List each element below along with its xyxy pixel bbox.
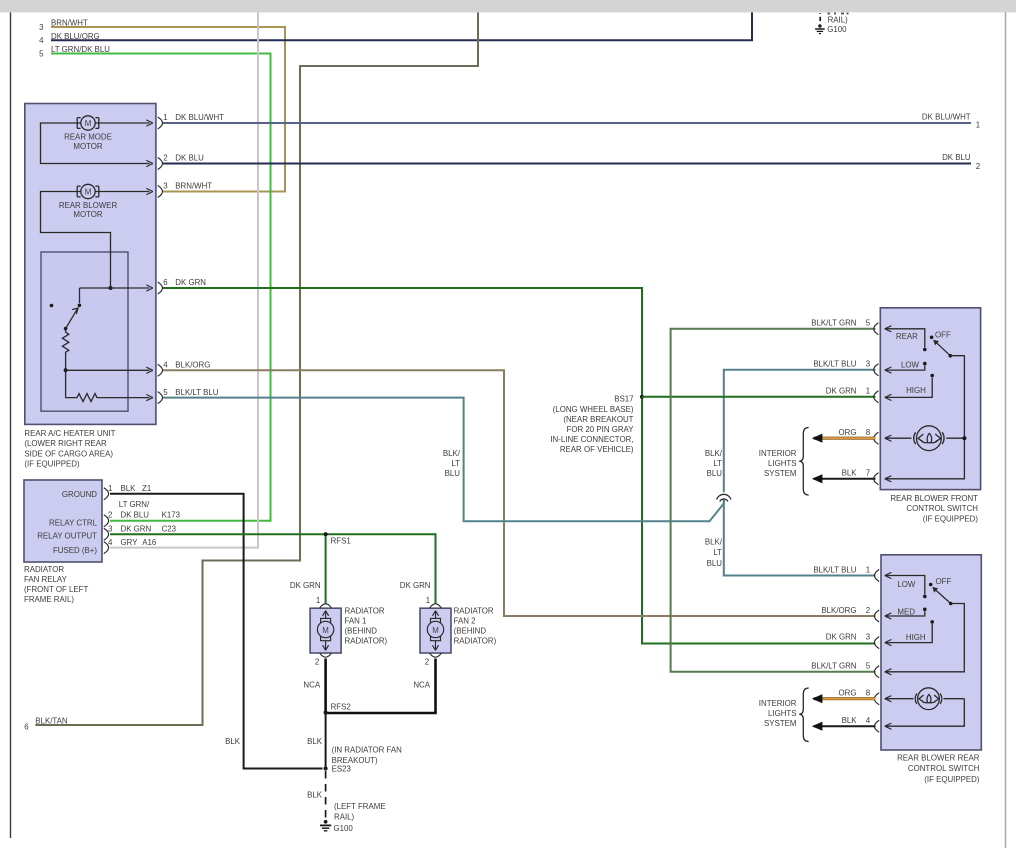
front switch pin 7 terminal arc: [874, 473, 879, 485]
svg-text:4: 4: [108, 538, 113, 547]
svg-text:(LONG WHEEL BASE): (LONG WHEEL BASE): [553, 405, 634, 414]
svg-text:SYSTEM: SYSTEM: [764, 469, 796, 478]
svg-text:DK GRN: DK GRN: [290, 581, 321, 590]
rear blower motor wire loop: [41, 192, 111, 289]
svg-text:3: 3: [108, 524, 113, 533]
svg-text:DK GRN: DK GRN: [121, 524, 152, 533]
svg-text:BLU: BLU: [707, 559, 723, 568]
wire BLK/TAN: [35, 12, 478, 725]
svg-text:1: 1: [866, 387, 870, 396]
svg-text:LT: LT: [713, 459, 722, 468]
svg-text:RFS1: RFS1: [331, 537, 351, 546]
fan 2 pin2 terminal arc: [430, 653, 442, 657]
svg-text:1: 1: [866, 565, 870, 574]
heater pin 2 terminal arc: [158, 158, 163, 170]
front switch pin 1 terminal arc: [874, 391, 879, 403]
heater pin 1 terminal arc: [158, 117, 163, 129]
node junction blower feed: [109, 286, 113, 290]
front switch pin3 arm LOW: [885, 366, 925, 371]
wire BRN/WHT: [51, 27, 285, 192]
svg-text:BLK/: BLK/: [705, 449, 723, 458]
front switch pin5 arm REAR: [885, 329, 925, 348]
svg-text:LOW: LOW: [901, 361, 920, 370]
svg-text:8: 8: [866, 428, 871, 437]
svg-text:REAR BLOWER: REAR BLOWER: [59, 201, 118, 210]
svg-text:K173: K173: [162, 510, 181, 519]
svg-text:DK BLU: DK BLU: [175, 154, 204, 163]
svg-text:LOW: LOW: [897, 580, 916, 589]
svg-text:MED: MED: [897, 607, 915, 616]
rear switch pin1 arm LOW: [885, 576, 925, 595]
svg-text:BLK/LT BLU: BLK/LT BLU: [813, 565, 856, 574]
svg-text:BLK/LT BLU: BLK/LT BLU: [175, 388, 218, 397]
heater pin 5 terminal arc: [158, 392, 163, 404]
svg-text:FRAME RAIL): FRAME RAIL): [24, 595, 74, 604]
svg-text:3: 3: [163, 182, 168, 191]
rear A/C heater unit box: [25, 104, 156, 425]
svg-text:5: 5: [39, 49, 44, 58]
fan 2 pin1 terminal arc: [430, 604, 442, 608]
svg-text:6: 6: [163, 278, 168, 287]
svg-text:SIDE OF CARGO AREA): SIDE OF CARGO AREA): [24, 449, 113, 458]
svg-text:LIGHTS: LIGHTS: [768, 709, 797, 718]
svg-text:HIGH: HIGH: [906, 386, 926, 395]
svg-text:REAR OF VEHICLE): REAR OF VEHICLE): [560, 445, 634, 454]
pin4 internal wire: [66, 369, 150, 371]
front switch pin1 arm HIGH: [885, 378, 932, 398]
svg-text:BLU: BLU: [445, 469, 461, 478]
svg-text:1: 1: [976, 121, 980, 130]
radiator fan 1 motor symbol: [317, 611, 333, 651]
pin6 internal wire: [80, 287, 150, 289]
ground G100 bottom symbol: [324, 820, 328, 824]
radiator fan 2 box: [420, 608, 451, 653]
front switch OFF contact: [930, 336, 934, 340]
svg-text:(BEHIND: (BEHIND: [345, 626, 378, 635]
svg-text:LIGHTS: LIGHTS: [768, 459, 797, 468]
wire fan2 pin2 to RFS2: [327, 659, 436, 714]
rear switch pin 5 terminal arc: [874, 666, 879, 678]
svg-text:CONTROL SWITCH: CONTROL SWITCH: [908, 764, 980, 773]
svg-text:2: 2: [976, 162, 980, 171]
selector lever with arrow: [66, 309, 78, 328]
svg-text:GRY: GRY: [121, 538, 139, 547]
wire BLK Z1 relay pin1 to ES23: [110, 494, 323, 769]
svg-text:REAR BLOWER REAR: REAR BLOWER REAR: [897, 754, 980, 763]
node ES23: [324, 766, 328, 770]
svg-text:BLK: BLK: [225, 737, 241, 746]
svg-text:6: 6: [24, 722, 29, 731]
svg-text:BLK/LT BLU: BLK/LT BLU: [813, 360, 856, 369]
resistor R2 horizontal zigzag: [66, 370, 150, 401]
svg-text:GROUND: GROUND: [62, 490, 97, 499]
node junction pin4: [64, 368, 68, 372]
arrow ORG front: [812, 434, 823, 443]
svg-text:4: 4: [39, 36, 44, 45]
front switch pin 5 terminal arc: [874, 323, 879, 335]
pin4 arrow: [146, 367, 153, 373]
svg-text:FAN RELAY: FAN RELAY: [24, 575, 68, 584]
rear mode motor wire loop: [41, 123, 150, 164]
svg-text:M: M: [85, 119, 92, 128]
svg-text:INTERIOR: INTERIOR: [759, 699, 797, 708]
front switch lever: [936, 343, 950, 356]
heater pin 3 terminal arc: [158, 186, 163, 198]
svg-text:G100: G100: [334, 824, 354, 833]
rear switch lamp to pin4 wire: [885, 699, 965, 727]
svg-text:(IF EQUIPPED): (IF EQUIPPED): [924, 775, 980, 784]
svg-text:DK BLU/WHT: DK BLU/WHT: [922, 113, 971, 122]
svg-text:M: M: [85, 188, 92, 197]
wire BLK dashed to G100 (top, cut off): [819, 17, 821, 21]
svg-text:2: 2: [315, 658, 319, 667]
svg-text:RFS2: RFS2: [331, 703, 351, 712]
rear blower motor M2 symbol: [77, 184, 99, 198]
svg-text:DK BLU/WHT: DK BLU/WHT: [175, 113, 224, 122]
arrow BLK rear: [812, 722, 823, 731]
fan 1 pin1 terminal arc: [320, 604, 332, 608]
svg-text:INTERIOR: INTERIOR: [759, 449, 797, 458]
rear switch common wire: [885, 604, 965, 672]
front switch lamp L1: [885, 437, 912, 439]
top gray toolbar strip: [0, 0, 1016, 12]
rear switch pin 4 terminal arc: [874, 720, 879, 732]
spare contact dot: [50, 304, 54, 308]
wire BLK/LT BLU upper branch to front switch pin3: [724, 370, 876, 493]
rear mode motor M1 symbol: [77, 116, 99, 130]
svg-text:1: 1: [163, 113, 167, 122]
svg-text:FOR 20 PIN GRAY: FOR 20 PIN GRAY: [567, 425, 635, 434]
svg-text:OFF: OFF: [936, 577, 952, 586]
svg-text:G100: G100: [827, 25, 847, 34]
front switch pin 8 terminal arc: [874, 432, 879, 444]
svg-text:IN-LINE CONNECTOR,: IN-LINE CONNECTOR,: [550, 435, 633, 444]
svg-text:RAIL): RAIL): [334, 812, 355, 821]
rear blower front control switch box: [880, 308, 980, 490]
svg-text:4: 4: [866, 716, 871, 725]
arrow BLK front: [812, 474, 823, 483]
svg-text:REAR A/C HEATER UNIT: REAR A/C HEATER UNIT: [24, 429, 115, 438]
wire BLK/ORG pin4 to rear switch pin2: [163, 370, 876, 616]
svg-text:NCA: NCA: [413, 681, 430, 690]
left page border: [10, 12, 12, 838]
svg-text:BLK: BLK: [307, 737, 323, 746]
svg-text:DK BLU: DK BLU: [942, 153, 971, 162]
svg-text:LT: LT: [713, 548, 722, 557]
svg-text:CONTROL SWITCH: CONTROL SWITCH: [906, 504, 978, 513]
svg-text:LT: LT: [451, 459, 460, 468]
right page border: [1005, 12, 1007, 848]
svg-text:5: 5: [866, 319, 871, 328]
svg-text:MOTOR: MOTOR: [73, 142, 103, 151]
svg-text:DK GRN: DK GRN: [175, 278, 206, 287]
svg-text:1: 1: [426, 596, 430, 605]
rear switch pin 2 terminal arc: [874, 610, 879, 622]
svg-text:RADIATOR: RADIATOR: [454, 607, 494, 616]
svg-text:RADIATOR: RADIATOR: [24, 565, 64, 574]
svg-text:ES23: ES23: [332, 764, 352, 773]
front switch lamp junction: [962, 436, 966, 440]
svg-text:5: 5: [866, 662, 871, 671]
wire GRY A16: [110, 12, 258, 547]
svg-text:DK BLU: DK BLU: [121, 510, 150, 519]
wire ORG rear pin8: [814, 697, 876, 700]
fan 1 pin2 terminal arc: [320, 653, 332, 657]
svg-text:2: 2: [866, 606, 870, 615]
svg-text:RELAY OUTPUT: RELAY OUTPUT: [37, 532, 97, 541]
svg-text:BLK: BLK: [121, 484, 137, 493]
rear mode motor pin2 arrow: [146, 160, 153, 166]
text fragments cut by top edge: [828, 13, 849, 15]
svg-text:DK GRN: DK GRN: [400, 581, 431, 590]
svg-text:(NEAR BREAKOUT: (NEAR BREAKOUT: [563, 415, 633, 424]
svg-text:FUSED (B+): FUSED (B+): [53, 546, 97, 555]
svg-text:(LEFT FRAME: (LEFT FRAME: [334, 802, 386, 811]
wire fan1 pin2 to RFS2: [324, 659, 327, 713]
inner resistor-block box: [41, 252, 128, 411]
svg-text:8: 8: [866, 689, 871, 698]
svg-text:BLK/LT GRN: BLK/LT GRN: [811, 319, 857, 328]
svg-text:RADIATOR): RADIATOR): [454, 636, 497, 645]
ground G100 top symbol: [815, 24, 825, 33]
svg-text:FAN 2: FAN 2: [454, 617, 476, 626]
arrow ORG rear: [812, 694, 823, 703]
svg-text:Z1: Z1: [142, 484, 151, 493]
wire DK GRN to fan1: [325, 534, 327, 604]
heater pin 4 terminal arc: [158, 364, 163, 376]
relay pin 1 terminal arc: [104, 488, 109, 500]
interior lights brace rear: [799, 688, 809, 742]
rear switch pin 1 terminal arc: [874, 570, 879, 582]
contact dot hi: [78, 304, 82, 308]
node RFS2: [324, 711, 328, 715]
wire LT GRN/DK BLU: [51, 54, 271, 521]
svg-text:(BEHIND: (BEHIND: [454, 626, 487, 635]
svg-text:NCA: NCA: [303, 681, 320, 690]
svg-text:BS17: BS17: [614, 394, 633, 403]
relay pin 4 terminal arc: [104, 542, 109, 554]
svg-text:REAR: REAR: [896, 332, 918, 341]
svg-text:(LOWER RIGHT REAR: (LOWER RIGHT REAR: [24, 439, 107, 448]
heater pin 6 terminal arc: [158, 282, 163, 294]
radiator fan 2 motor symbol: [427, 611, 443, 651]
wire BLK dashed ES23 to G100: [325, 771, 327, 820]
svg-text:BLK/ORG: BLK/ORG: [821, 606, 856, 615]
wire DK BLU/ORG: [51, 12, 752, 40]
svg-text:2: 2: [425, 658, 429, 667]
svg-text:BLK/: BLK/: [705, 538, 723, 547]
svg-text:ORG: ORG: [839, 428, 857, 437]
svg-text:HIGH: HIGH: [906, 633, 926, 642]
svg-text:DK GRN: DK GRN: [826, 387, 857, 396]
svg-text:BRN/WHT: BRN/WHT: [175, 182, 212, 191]
radiator fan relay box: [24, 480, 102, 562]
rear switch pin 3 terminal arc: [874, 637, 879, 649]
relay pin 2 terminal arc: [104, 515, 109, 527]
wire BLK rear pin4: [814, 725, 876, 727]
front switch common wire: [885, 356, 965, 479]
svg-text:3: 3: [39, 23, 44, 32]
svg-text:OFF: OFF: [935, 331, 951, 340]
svg-text:BLK/: BLK/: [443, 449, 461, 458]
svg-text:M: M: [322, 626, 329, 635]
svg-text:DK GRN: DK GRN: [826, 632, 857, 641]
svg-text:REAR MODE: REAR MODE: [64, 132, 112, 141]
svg-text:RELAY CTRL: RELAY CTRL: [49, 518, 98, 527]
wire DK GRN C23 relay pin3: [110, 534, 436, 604]
svg-text:BLU: BLU: [707, 469, 723, 478]
svg-text:ORG: ORG: [839, 689, 857, 698]
svg-text:5: 5: [163, 388, 168, 397]
svg-text:2: 2: [163, 154, 167, 163]
rear switch lever: [936, 590, 951, 604]
svg-text:C23: C23: [162, 524, 177, 533]
relay pin 3 terminal arc: [104, 528, 109, 540]
svg-text:BLK: BLK: [842, 469, 858, 478]
svg-text:(IF EQUIPPED): (IF EQUIPPED): [923, 514, 979, 523]
in-line connector symbol: [717, 494, 731, 501]
svg-text:REAR BLOWER FRONT: REAR BLOWER FRONT: [890, 494, 978, 503]
wire BLK/LT BLU pin5: [163, 398, 724, 522]
wire DK GRN pin6 to BS17 and rear switch pin3: [163, 288, 876, 644]
resistor R1 vertical zigzag: [62, 329, 68, 371]
svg-text:2: 2: [108, 510, 112, 519]
svg-text:M: M: [432, 626, 439, 635]
svg-text:RAIL): RAIL): [828, 16, 849, 25]
svg-text:LT GRN/: LT GRN/: [119, 500, 150, 509]
rear switch OFF contact: [929, 583, 933, 587]
svg-text:RADIATOR: RADIATOR: [345, 607, 385, 616]
front switch pin 3 terminal arc: [874, 364, 879, 376]
svg-text:MOTOR: MOTOR: [73, 210, 103, 219]
wire DK BLU/WHT pin1: [163, 122, 971, 124]
pin6 arrow: [146, 285, 153, 291]
interior lights brace front: [799, 428, 809, 496]
svg-text:BLK/LT GRN: BLK/LT GRN: [811, 662, 857, 671]
svg-text:3: 3: [866, 360, 871, 369]
svg-text:RADIATOR): RADIATOR): [345, 636, 388, 645]
pin5 arrow: [146, 395, 153, 401]
svg-text:7: 7: [866, 469, 870, 478]
svg-text:BLK: BLK: [842, 716, 858, 725]
svg-text:1: 1: [108, 484, 112, 493]
wire BLK/LT GRN front pin5 to rear pin5: [671, 329, 876, 672]
wire ORG front pin8: [814, 437, 876, 440]
svg-text:BLK/ORG: BLK/ORG: [175, 361, 210, 370]
svg-text:SYSTEM: SYSTEM: [764, 719, 796, 728]
svg-text:A16: A16: [142, 538, 157, 547]
svg-text:1: 1: [316, 596, 320, 605]
svg-text:3: 3: [866, 632, 871, 641]
svg-text:4: 4: [163, 361, 168, 370]
rear switch pin 8 terminal arc: [874, 693, 879, 705]
rear blower rear control switch box: [881, 555, 981, 750]
rear switch pin3 arm HIGH: [885, 624, 932, 643]
svg-text:(IN RADIATOR FAN: (IN RADIATOR FAN: [332, 746, 403, 755]
rear mode motor pin1 arrow: [146, 120, 153, 126]
rear blower motor pin3 arrow: [146, 188, 153, 194]
wire DK GRN BS17 to front switch pin1: [642, 396, 876, 398]
rear switch lamp L2: [885, 698, 914, 700]
node BS17: [640, 395, 644, 399]
rear switch pin2 arm MED: [885, 611, 925, 616]
node RFS1: [324, 532, 328, 536]
wire DK BLU pin2: [163, 163, 971, 165]
wire BLK/LT BLU lower branch to rear switch pin1: [724, 500, 876, 576]
svg-text:(IF EQUIPPED): (IF EQUIPPED): [24, 459, 80, 468]
svg-text:(FRONT OF LEFT: (FRONT OF LEFT: [24, 585, 88, 594]
wire BLK front pin7: [814, 478, 876, 480]
svg-text:FAN 1: FAN 1: [345, 617, 367, 626]
svg-text:BLK: BLK: [307, 791, 323, 800]
radiator fan 1 box: [310, 608, 341, 653]
wire BLK RFS2 to ES23: [325, 713, 327, 769]
